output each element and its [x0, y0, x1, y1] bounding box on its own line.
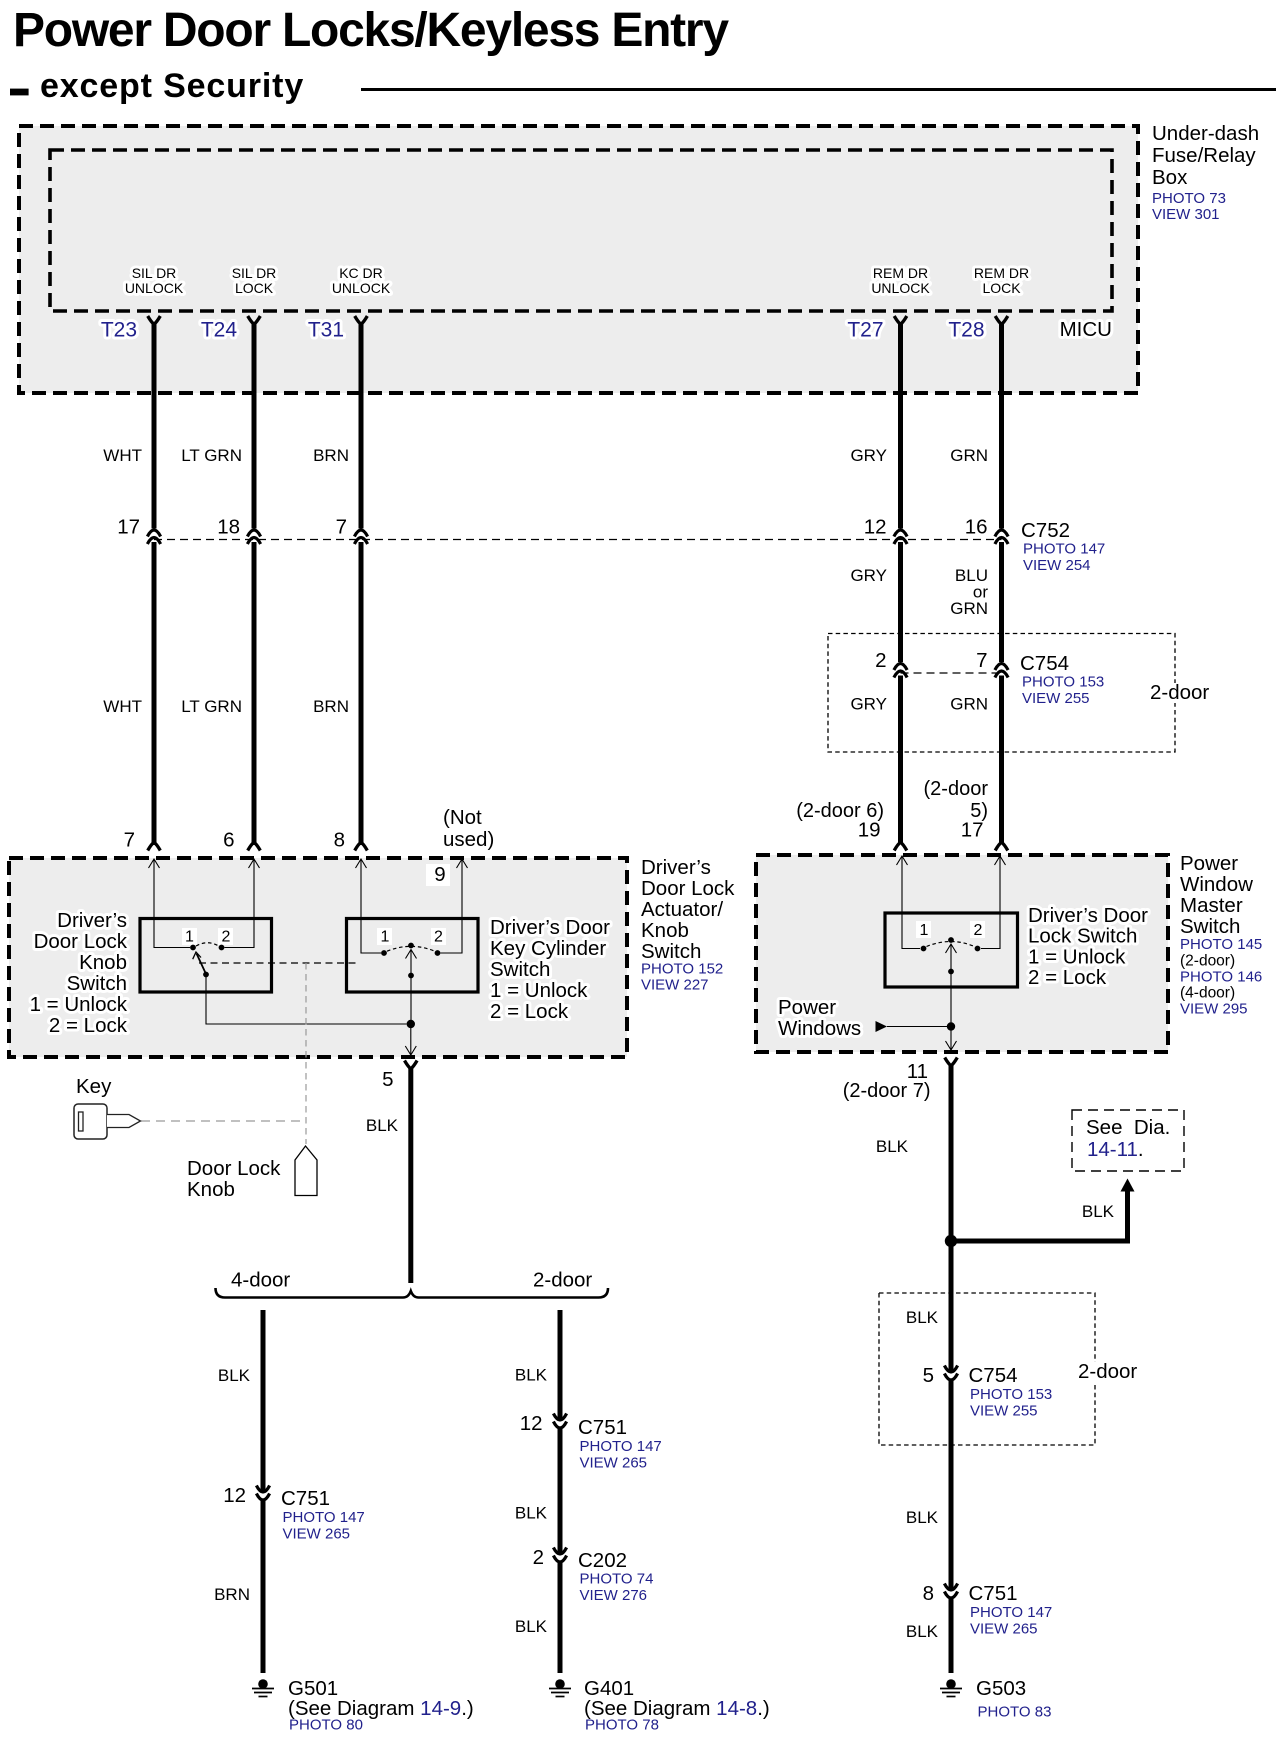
knob switch pin 2 label [218, 928, 233, 945]
svg-text:1: 1 [185, 929, 194, 946]
svg-text:Driver’s Door: Driver’s Door [490, 916, 610, 939]
svg-text:T28: T28 [948, 319, 984, 342]
svg-text:1 = Unlock: 1 = Unlock [490, 979, 588, 1002]
svg-text:BLK: BLK [1082, 1202, 1115, 1221]
svg-text:18: 18 [217, 516, 240, 539]
svg-text:VIEW 255: VIEW 255 [970, 1403, 1038, 1420]
terminal fork REM DR LOCK wire [995, 316, 1008, 324]
svg-text:BLK: BLK [876, 1137, 909, 1156]
wire BRN lower segment to G501 [261, 1499, 266, 1673]
fork at door lock actuator box SIL DR LOCK wire [248, 842, 261, 850]
svg-text:Key Cylinder: Key Cylinder [490, 937, 606, 960]
wire REM DR LOCK wire lower segment [999, 676, 1004, 844]
wire BLK middle segment [558, 1427, 563, 1553]
power window master switch box [756, 855, 1168, 1052]
2-door label [1146, 683, 1212, 703]
connector C751 (4-door branch) [256, 1486, 269, 1493]
svg-text:5: 5 [923, 1364, 934, 1387]
subtitle dash [10, 89, 29, 96]
internal wire from terminal 7 to knob switch pin 1 [149, 859, 160, 868]
svg-text:LT GRN: LT GRN [181, 446, 242, 465]
mechanical link dashed key to cylinder [141, 1120, 306, 1122]
svg-text:GRY: GRY [850, 446, 887, 465]
see dia 14-11 dashed box [1072, 1110, 1184, 1171]
terminal 5 fork below actuator box [405, 1061, 418, 1069]
lock switch contact 1 [921, 946, 927, 952]
svg-text:GRN: GRN [950, 446, 988, 465]
svg-text:T27: T27 [847, 319, 883, 342]
internal wire node to terminal 11 with arrow [950, 1027, 952, 1050]
svg-text:17: 17 [961, 819, 984, 842]
key cylinder switch contact 1 [381, 950, 387, 956]
svg-text:12: 12 [864, 516, 887, 539]
svg-text:GRN: GRN [950, 695, 988, 714]
svg-text:Box: Box [1152, 166, 1188, 189]
svg-text:2 = Lock: 2 = Lock [49, 1014, 128, 1037]
MICU inner dashed box [50, 150, 1112, 311]
svg-text:12: 12 [223, 1484, 246, 1507]
svg-text:BLK: BLK [906, 1622, 939, 1641]
knob switch pin 1 label [182, 928, 197, 945]
svg-text:GRY: GRY [850, 566, 887, 585]
lock switch pin 2 label [970, 921, 985, 938]
svg-text:T23: T23 [101, 319, 137, 342]
svg-text:1: 1 [920, 922, 929, 939]
svg-text:except Security: except Security [40, 67, 304, 105]
svg-text:Switch: Switch [67, 972, 127, 995]
svg-text:Lock Switch: Lock Switch [1028, 925, 1137, 948]
svg-text:12: 12 [520, 1412, 543, 1435]
svg-text:Power: Power [1180, 852, 1238, 875]
svg-text:2: 2 [875, 649, 886, 672]
svg-text:PHOTO 147: PHOTO 147 [1023, 541, 1105, 558]
4-door / 2-door split brace [216, 1288, 609, 1298]
wire BLK terminal 11 down to junction [949, 1064, 954, 1242]
junction node in master switch [947, 1022, 955, 1030]
ground G503 [946, 1679, 956, 1689]
knob switch common contact [203, 972, 209, 978]
connector C751 (2-door branch) [553, 1414, 566, 1421]
connector C754 (lower) [944, 1366, 957, 1373]
svg-text:(Not: (Not [443, 806, 482, 829]
connector C754 dashed junction line [901, 672, 1002, 674]
driver's door lock actuator/knob switch box [9, 858, 627, 1057]
wire BLK terminal 5 down to split [408, 1067, 413, 1284]
svg-text:VIEW 265: VIEW 265 [970, 1621, 1038, 1638]
svg-text:VIEW 295: VIEW 295 [1180, 1001, 1248, 1018]
wire REM DR UNLOCK wire middle segment [898, 542, 903, 662]
junction node inside actuator box [407, 1020, 415, 1028]
fork at power window master switch box REM DR UNLOCK wire [894, 842, 907, 850]
svg-text:KC DR: KC DR [339, 265, 383, 281]
svg-text:Driver’s Door: Driver’s Door [1028, 904, 1148, 927]
svg-text:Knob: Knob [187, 1178, 235, 1201]
svg-text:PHOTO 147: PHOTO 147 [970, 1604, 1052, 1621]
svg-text:9: 9 [434, 863, 445, 886]
connector C754 terminal on REM DR UNLOCK wire [894, 664, 907, 671]
junction node to see-dia branch [945, 1235, 957, 1247]
svg-text:WHT: WHT [103, 697, 142, 716]
svg-text:2-door: 2-door [533, 1269, 592, 1292]
fork at door lock actuator box KC DR UNLOCK wire [355, 842, 368, 850]
wire BLK middle segment [949, 1379, 954, 1589]
svg-text:used): used) [443, 828, 494, 851]
svg-text:19: 19 [858, 819, 881, 842]
wire REM DR UNLOCK wire upper segment [898, 322, 903, 529]
svg-text:BLK: BLK [906, 1508, 939, 1527]
knob switch contact 2 [219, 945, 225, 951]
svg-text:4-door: 4-door [231, 1269, 290, 1292]
svg-text:8: 8 [334, 829, 345, 852]
door lock knob symbol [295, 1146, 317, 1196]
lock switch pin 1 label [916, 921, 931, 938]
terminal fork REM DR UNLOCK wire [894, 316, 907, 324]
svg-text:Window: Window [1180, 873, 1253, 896]
2-door label [1074, 1362, 1140, 1382]
svg-text:PHOTO 145: PHOTO 145 [1180, 936, 1262, 953]
svg-text:2: 2 [434, 929, 443, 946]
wire BLK 4-door branch upper segment [261, 1310, 266, 1491]
svg-text:PHOTO 80: PHOTO 80 [289, 1717, 363, 1734]
svg-text:PHOTO 78: PHOTO 78 [585, 1717, 659, 1734]
svg-text:Fuse/Relay: Fuse/Relay [1152, 144, 1256, 167]
svg-text:BLK: BLK [218, 1366, 251, 1385]
wire SIL DR UNLOCK wire upper segment [152, 322, 157, 529]
svg-text:2: 2 [533, 1546, 544, 1569]
knob switch dashed throw arc [196, 943, 219, 946]
svg-text:T31: T31 [308, 319, 344, 342]
svg-text:2-door: 2-door [1078, 1360, 1137, 1383]
terminal fork SIL DR UNLOCK wire [148, 316, 161, 324]
svg-text:VIEW 227: VIEW 227 [641, 977, 709, 994]
svg-text:Switch: Switch [490, 958, 550, 981]
terminal 11 fork below master switch box [945, 1058, 958, 1066]
lock switch common contact [948, 969, 954, 975]
mechanical link dashed (switch levers) [199, 962, 357, 964]
svg-text:2 = Lock: 2 = Lock [1028, 966, 1107, 989]
2-door dashed region box (C754 upper) [828, 634, 1175, 753]
lock switch dashed throw arc [927, 942, 975, 947]
svg-text:UNLOCK: UNLOCK [332, 280, 391, 296]
knob switch lever with arrow [197, 954, 207, 975]
svg-text:VIEW 301: VIEW 301 [1152, 206, 1220, 223]
key symbol [74, 1104, 107, 1139]
pin 9 label [426, 864, 450, 886]
svg-text:VIEW 265: VIEW 265 [580, 1455, 648, 1472]
svg-text:BRN: BRN [313, 697, 349, 716]
svg-text:2 = Lock: 2 = Lock [490, 1000, 569, 1023]
svg-text:7: 7 [976, 649, 987, 672]
svg-text:BLK: BLK [515, 1617, 548, 1636]
svg-text:PHOTO 153: PHOTO 153 [970, 1386, 1052, 1403]
svg-text:Switch: Switch [1180, 915, 1240, 938]
connector C751 (driver door harness) [944, 1584, 957, 1591]
connector C752 terminal on REM DR UNLOCK wire [894, 530, 907, 537]
wire KC DR UNLOCK wire lower segment [359, 542, 364, 845]
svg-text:WHT: WHT [103, 446, 142, 465]
svg-text:PHOTO 146: PHOTO 146 [1180, 969, 1262, 986]
svg-text:8: 8 [923, 1582, 934, 1605]
driver's door lock switch body [885, 913, 1018, 987]
fork at door lock actuator box SIL DR UNLOCK wire [148, 842, 161, 850]
svg-text:Door Lock: Door Lock [641, 877, 735, 900]
svg-text:PHOTO 152: PHOTO 152 [641, 961, 723, 978]
wire BLK 2-door branch upper segment [558, 1310, 563, 1419]
svg-text:BLK: BLK [906, 1308, 939, 1327]
svg-text:Power: Power [778, 996, 836, 1019]
wire BLK lower segment to G401 [558, 1561, 563, 1673]
svg-text:UNLOCK: UNLOCK [871, 280, 930, 296]
lock switch wiper arrow [946, 944, 957, 953]
svg-text:Windows: Windows [778, 1017, 861, 1040]
lock switch contact 2 [975, 946, 981, 952]
svg-text:Actuator/: Actuator/ [641, 898, 723, 921]
svg-text:GRY: GRY [850, 695, 887, 714]
mechanical link dashed vertical (knob/key) [305, 963, 307, 1144]
svg-text:PHOTO 73: PHOTO 73 [1152, 190, 1226, 207]
key cylinder switch pin 2 label [431, 928, 446, 945]
wire REM DR UNLOCK wire lower segment [898, 676, 903, 844]
svg-text:G503: G503 [976, 1677, 1026, 1700]
connector C752 dashed junction line [154, 539, 1002, 541]
wire REM DR LOCK wire middle segment [999, 542, 1004, 662]
svg-text:REM DR: REM DR [974, 265, 1029, 281]
svg-text:C751: C751 [281, 1487, 330, 1510]
svg-text:BLK: BLK [366, 1116, 399, 1135]
svg-text:BRN: BRN [214, 1585, 250, 1604]
svg-text:(2-door 7): (2-door 7) [843, 1080, 931, 1102]
svg-text:UNLOCK: UNLOCK [125, 280, 184, 296]
ground G401 [555, 1679, 565, 1689]
branch wire BLK to diagram 14-11 [951, 1191, 1128, 1241]
svg-text:MICU: MICU [1060, 318, 1112, 341]
svg-text:2: 2 [222, 929, 231, 946]
svg-text:BLK: BLK [515, 1504, 548, 1523]
svg-text:5: 5 [382, 1068, 393, 1091]
header rule [361, 88, 1276, 91]
connector C202 [553, 1548, 566, 1555]
svg-text:VIEW 254: VIEW 254 [1023, 557, 1091, 574]
internal wire terminal 9 (not used) from key cylinder switch pin 2 [457, 859, 468, 868]
svg-text:GRN: GRN [950, 599, 988, 618]
svg-text:PHOTO 74: PHOTO 74 [580, 1571, 654, 1588]
svg-text:(4-door): (4-door) [1180, 985, 1235, 1002]
svg-text:Door Lock: Door Lock [34, 930, 128, 953]
key cylinder switch pin 1 label [377, 928, 392, 945]
svg-text:(2-door: (2-door [924, 778, 989, 800]
under-dash fuse/relay box (outer dashed box) [19, 126, 1138, 393]
driver's door lock knob switch body [140, 919, 272, 993]
lock switch center contact [948, 937, 954, 943]
svg-text:Knob: Knob [641, 919, 689, 942]
svg-text:SIL DR: SIL DR [132, 265, 177, 281]
svg-text:See Dia.: See Dia. [1086, 1116, 1170, 1139]
svg-text:C752: C752 [1021, 519, 1070, 542]
svg-text:C754: C754 [1020, 652, 1069, 675]
svg-text:1 = Unlock: 1 = Unlock [30, 993, 128, 1016]
internal wire from terminal 8 to key cylinder switch pin 1 [356, 859, 367, 868]
svg-text:VIEW 276: VIEW 276 [580, 1587, 648, 1604]
svg-text:C751: C751 [969, 1582, 1018, 1605]
svg-text:17: 17 [117, 516, 140, 539]
svg-text:Knob: Knob [79, 951, 127, 974]
branch arrowhead [1121, 1179, 1135, 1192]
internal wire terminal 19 to lock switch pin 1 [897, 856, 908, 865]
svg-text:14-11.: 14-11. [1087, 1138, 1144, 1161]
svg-text:Driver’s: Driver’s [641, 856, 711, 879]
connector C752 terminal on REM DR LOCK wire [995, 530, 1008, 537]
terminal fork SIL DR LOCK wire [248, 316, 261, 324]
internal wire node to terminal 5 with arrow [410, 1024, 412, 1054]
internal wire from terminal 6 to knob switch pin 2 [249, 859, 260, 868]
svg-text:PHOTO 147: PHOTO 147 [580, 1438, 662, 1455]
svg-text:(2-door): (2-door) [1180, 953, 1235, 970]
connector C752 terminal on KC DR UNLOCK wire [354, 530, 367, 537]
svg-text:6: 6 [223, 829, 234, 852]
fork at power window master switch box REM DR LOCK wire [995, 842, 1008, 850]
svg-text:Under-dash: Under-dash [1152, 122, 1259, 145]
terminal fork KC DR UNLOCK wire [355, 316, 368, 324]
svg-text:LOCK: LOCK [982, 280, 1021, 296]
svg-text:T24: T24 [201, 319, 238, 342]
svg-text:1: 1 [381, 929, 390, 946]
wire SIL DR UNLOCK wire lower segment [152, 542, 157, 845]
svg-text:VIEW 265: VIEW 265 [283, 1526, 351, 1543]
svg-text:2-door: 2-door [1150, 681, 1209, 704]
connector C752 terminal on SIL DR UNLOCK wire [147, 530, 160, 537]
svg-text:7: 7 [124, 829, 135, 852]
svg-text:Driver’s: Driver’s [57, 909, 127, 932]
2-door dashed region box (C754 lower) [879, 1293, 1095, 1445]
svg-text:Key: Key [76, 1075, 112, 1098]
key cylinder switch dashed throw arc [387, 946, 435, 951]
wire BLK junction down to C754 [949, 1241, 954, 1371]
knob switch contact 1 [190, 945, 196, 951]
wire BLK lower segment to G503 [949, 1597, 954, 1673]
key cylinder switch wiper arrow [406, 950, 417, 959]
svg-text:BRN: BRN [313, 446, 349, 465]
svg-text:Power Door Locks/Keyless Entry: Power Door Locks/Keyless Entry [13, 4, 729, 57]
svg-text:PHOTO 153: PHOTO 153 [1022, 674, 1104, 691]
svg-text:C751: C751 [578, 1416, 627, 1439]
svg-text:BLK: BLK [515, 1366, 548, 1385]
svg-text:2: 2 [974, 922, 983, 939]
svg-text:SIL DR: SIL DR [232, 265, 277, 281]
svg-text:PHOTO 147: PHOTO 147 [283, 1509, 365, 1526]
svg-text:LT GRN: LT GRN [181, 697, 242, 716]
svg-text:1 = Unlock: 1 = Unlock [1028, 945, 1126, 968]
svg-text:VIEW 255: VIEW 255 [1022, 690, 1090, 707]
power windows feed arrow [876, 1021, 888, 1032]
svg-text:Master: Master [1180, 894, 1243, 917]
svg-text:REM DR: REM DR [873, 265, 928, 281]
wire REM DR LOCK wire upper segment [999, 322, 1004, 529]
svg-text:7: 7 [336, 516, 347, 539]
svg-text:LOCK: LOCK [235, 280, 274, 296]
svg-text:PHOTO 83: PHOTO 83 [978, 1704, 1052, 1721]
key cylinder switch contact 2 [435, 950, 441, 956]
internal wire knob switch common to node [206, 976, 407, 1024]
svg-text:Door Lock: Door Lock [187, 1157, 281, 1180]
wire SIL DR LOCK wire lower segment [252, 542, 257, 845]
wire KC DR UNLOCK wire upper segment [359, 322, 364, 529]
svg-text:C202: C202 [578, 1549, 627, 1572]
wire SIL DR LOCK wire upper segment [252, 322, 257, 529]
key cylinder switch common contact [408, 973, 414, 979]
svg-text:C754: C754 [969, 1364, 1018, 1387]
svg-text:16: 16 [965, 516, 988, 539]
ground G501 [258, 1679, 268, 1689]
key cylinder switch center contact [408, 943, 414, 949]
internal wire terminal 17 to lock switch pin 2 [995, 856, 1006, 865]
connector C752 terminal on SIL DR LOCK wire [247, 530, 260, 537]
connector C754 terminal on REM DR LOCK wire [995, 664, 1008, 671]
driver's door key cylinder switch body [347, 919, 479, 993]
